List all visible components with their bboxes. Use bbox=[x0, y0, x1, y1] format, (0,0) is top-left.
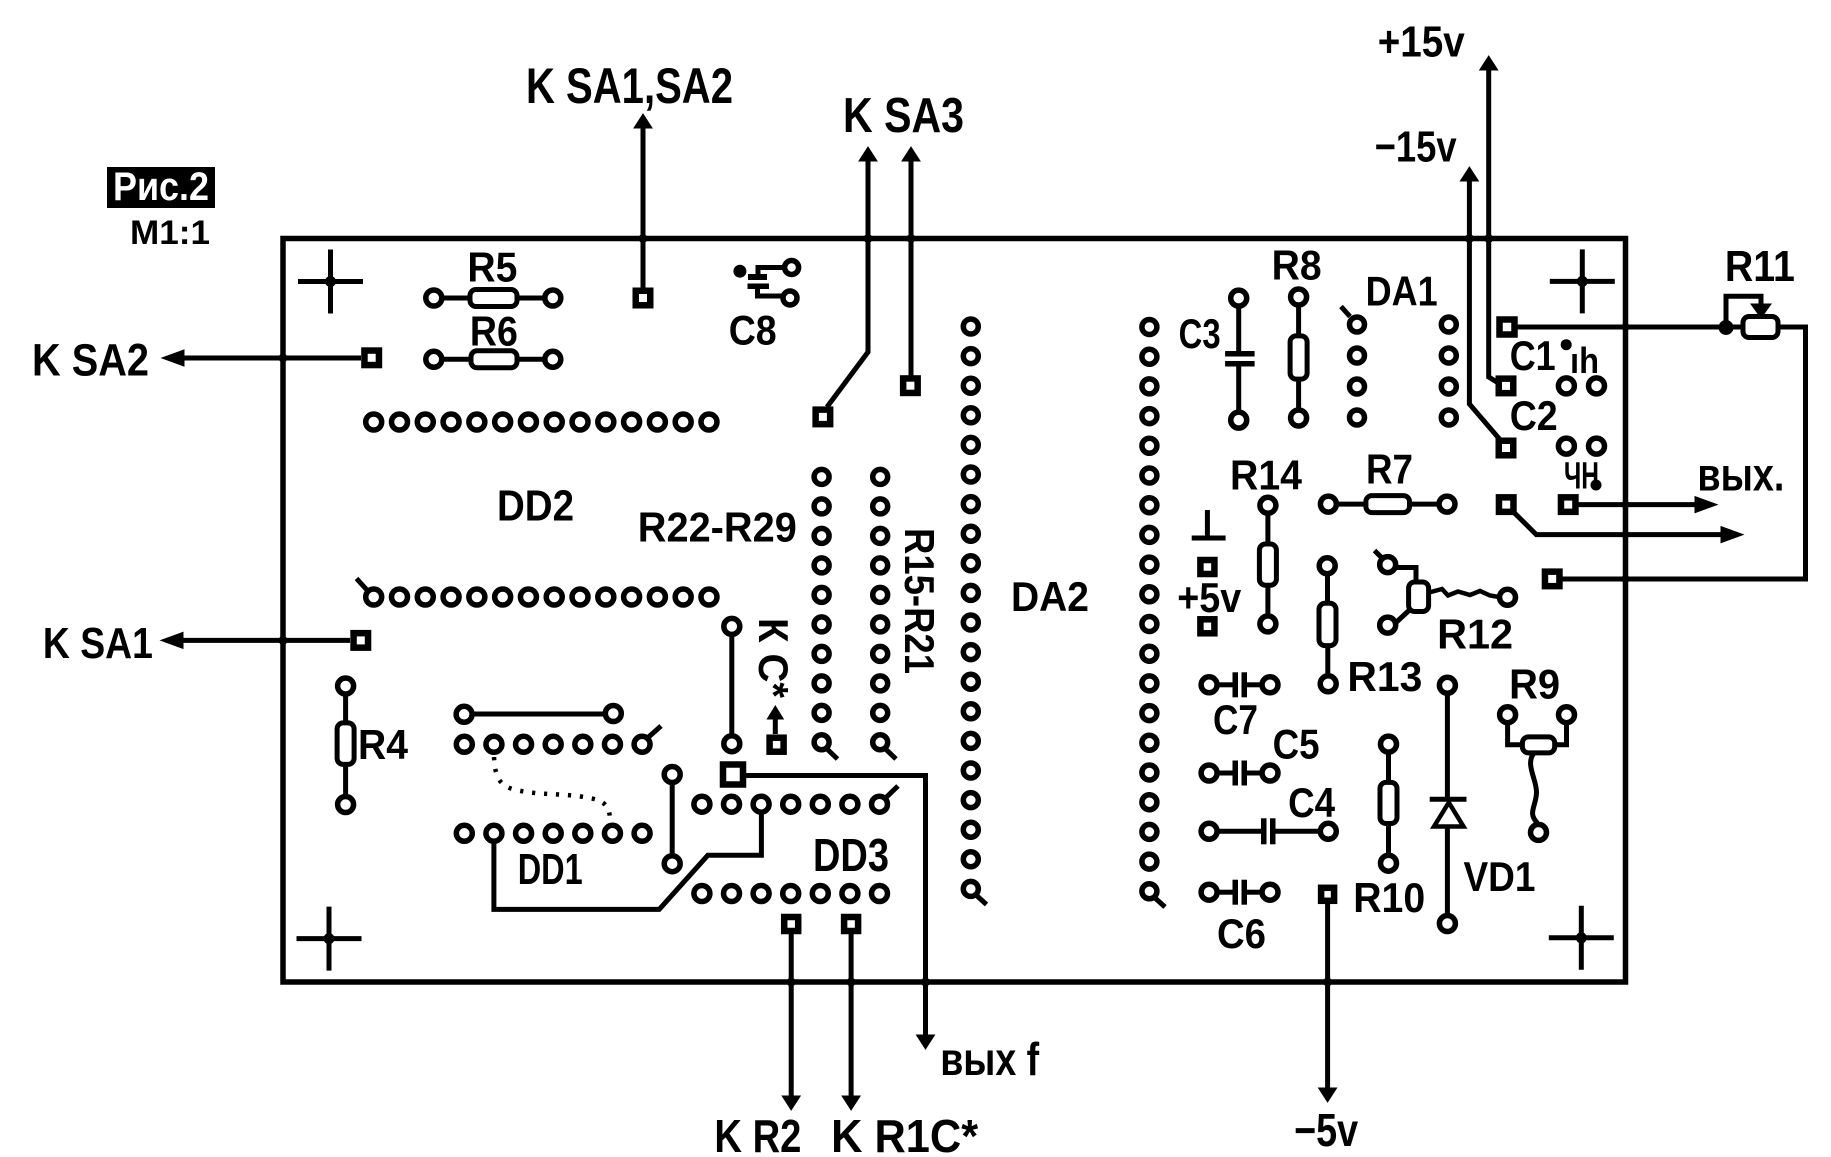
svg-text:K SA2: K SA2 bbox=[32, 335, 149, 386]
resistor network R15-R21 pads column bbox=[873, 469, 896, 759]
junction top edge x1469 bbox=[1465, 234, 1474, 243]
resistor R7 bbox=[1320, 446, 1455, 513]
label K R2 bbox=[714, 1110, 801, 1157]
capacitor C2 bbox=[1510, 392, 1605, 497]
junction bottom edge x791 bbox=[787, 978, 796, 987]
junction right edge y579 bbox=[1622, 575, 1630, 583]
dotted trace DD1 bbox=[494, 757, 610, 821]
svg-text:VD1: VD1 bbox=[1464, 853, 1536, 900]
svg-text:C6: C6 bbox=[1217, 910, 1266, 957]
wire +15v arrow bbox=[1480, 56, 1498, 383]
svg-text:DD1: DD1 bbox=[518, 845, 583, 894]
jumper K C* pads bbox=[724, 618, 740, 751]
node K SA2 pad bbox=[364, 351, 379, 366]
IC DD1 pad row A (pin tick) bbox=[456, 726, 661, 752]
svg-text:R5: R5 bbox=[467, 244, 517, 291]
IC DD3 bottom row bbox=[694, 886, 888, 902]
svg-text:C1: C1 bbox=[1510, 332, 1556, 379]
capacitor C3 bbox=[1179, 290, 1255, 428]
node pad G (R11 return) bbox=[1545, 572, 1560, 587]
node вых pad E bbox=[1499, 497, 1514, 512]
node K SA1 pad bbox=[354, 633, 369, 648]
svg-text:K R2: K R2 bbox=[714, 1110, 801, 1157]
svg-text:вых.: вых. bbox=[1697, 448, 1784, 500]
label K R1C* bbox=[831, 1110, 978, 1157]
resistor R9 bbox=[1500, 661, 1575, 841]
IC DA2 right pad column bbox=[1142, 320, 1165, 908]
label K SA1 bbox=[43, 619, 153, 668]
label +5v bbox=[1177, 574, 1242, 621]
registration mark bottom-right bbox=[1549, 906, 1614, 970]
svg-text:R7: R7 bbox=[1366, 446, 1413, 493]
node K R2 pad bbox=[784, 917, 798, 931]
svg-text:C8: C8 bbox=[729, 307, 777, 354]
resistor R14 bbox=[1230, 452, 1303, 632]
title Рис.2 (inverted label) bbox=[107, 165, 215, 209]
jumper wire above DD1 bbox=[456, 706, 621, 723]
resistor R13 bbox=[1319, 558, 1422, 700]
svg-text:Рис.2: Рис.2 bbox=[113, 165, 209, 209]
wire -15v arrow bbox=[1460, 167, 1502, 442]
wire вых arrow 2 bbox=[1515, 513, 1744, 543]
svg-text:−15v: −15v bbox=[1375, 122, 1457, 171]
trace DD1 pin2 to DD3 pin3 bbox=[494, 812, 762, 909]
junction top edge x643 bbox=[639, 234, 648, 243]
diode VD1 bbox=[1430, 677, 1536, 931]
capacitor C1 bbox=[1510, 332, 1605, 394]
svg-text:R12: R12 bbox=[1437, 611, 1513, 658]
wire K C* arrow up bbox=[767, 706, 783, 734]
IC DA1 right pad column bbox=[1441, 317, 1456, 425]
trimmer R11 bbox=[1518, 242, 1806, 579]
label -5v bbox=[1294, 1104, 1358, 1156]
IC DD2 pad row 2 (pin 1 tick) bbox=[357, 579, 717, 606]
wire вых f arrow bbox=[917, 986, 935, 1049]
registration mark top-right bbox=[1550, 249, 1615, 313]
junction right edge y504 bbox=[1622, 501, 1630, 509]
svg-text:C4: C4 bbox=[1288, 779, 1336, 826]
registration mark bottom-left bbox=[297, 907, 362, 971]
capacitor C5 bbox=[1201, 721, 1320, 786]
wire K SA2 bbox=[162, 350, 361, 366]
svg-text:+15v: +15v bbox=[1378, 18, 1465, 67]
label R22-R29 bbox=[638, 504, 797, 551]
node K C* pad bbox=[770, 738, 784, 752]
capacitor C7 bbox=[1201, 672, 1278, 743]
IC DD3 top row (pin tick) bbox=[694, 786, 898, 812]
svg-text:ıh: ıh bbox=[1570, 340, 1599, 381]
svg-text:−5v: −5v bbox=[1294, 1104, 1358, 1156]
node R10/-5v pad bbox=[1321, 888, 1334, 901]
ground symbol bbox=[1192, 510, 1226, 538]
resistor R10 bbox=[1353, 736, 1425, 921]
svg-text:R10: R10 bbox=[1353, 874, 1425, 921]
resistor R4 bbox=[337, 678, 408, 813]
resistor R8 bbox=[1272, 242, 1322, 426]
wire K SA1,SA2 arrow bbox=[634, 114, 652, 289]
wire вых arrow 1 bbox=[1579, 497, 1718, 513]
node +15v pad bbox=[1499, 379, 1514, 394]
resistor R6 bbox=[426, 307, 561, 367]
label K SA1,SA2 bbox=[526, 58, 733, 114]
junction bottom edge x851 bbox=[847, 978, 856, 987]
svg-text:R4: R4 bbox=[358, 721, 409, 768]
svg-text:R6: R6 bbox=[470, 307, 518, 354]
label K SA3 bbox=[843, 89, 964, 143]
svg-text:К С*: К С* bbox=[750, 618, 797, 699]
svg-text:M1:1: M1:1 bbox=[130, 214, 210, 252]
junction top edge x1488 bbox=[1484, 234, 1493, 243]
capacitor C8 bbox=[729, 261, 799, 354]
label R15-R21 (rotated) bbox=[896, 528, 943, 674]
capacitor C6 bbox=[1201, 880, 1278, 957]
svg-text:C7: C7 bbox=[1213, 696, 1258, 743]
svg-text:K R1C*: K R1C* bbox=[831, 1110, 978, 1157]
node K SA3 pad right bbox=[903, 378, 918, 393]
trimmer R12 bbox=[1375, 551, 1516, 658]
node +5v pad lower bbox=[1200, 619, 1214, 633]
node K R1C* pad bbox=[844, 917, 858, 931]
svg-text:K SA3: K SA3 bbox=[843, 89, 964, 143]
board outline bbox=[283, 239, 1626, 983]
vertical jumper right of DD1 bbox=[664, 767, 680, 872]
svg-text:R14: R14 bbox=[1230, 452, 1303, 499]
IC DD1 label bbox=[518, 845, 583, 894]
svg-text:вых f: вых f bbox=[940, 1033, 1040, 1085]
node вых pad F bbox=[1561, 497, 1576, 512]
resistor network R22-R29 pads column bbox=[814, 469, 837, 759]
svg-text:DA1: DA1 bbox=[1366, 268, 1438, 315]
IC DD2 label bbox=[497, 481, 574, 530]
junction left edge y358 bbox=[279, 354, 288, 363]
IC DD2 pad row 1 bbox=[366, 414, 717, 430]
label K C* (rotated) bbox=[750, 618, 797, 699]
wire K SA3 right arrow bbox=[902, 147, 920, 376]
svg-text:K SA1,SA2: K SA1,SA2 bbox=[526, 58, 733, 114]
wire K SA1 bbox=[161, 632, 350, 648]
scale label M1:1 bbox=[130, 214, 210, 252]
svg-text:R13: R13 bbox=[1347, 653, 1422, 700]
svg-text:C2: C2 bbox=[1510, 392, 1558, 439]
label +15v bbox=[1378, 18, 1465, 67]
IC DA2 left pad column bbox=[963, 319, 986, 905]
svg-text:+5v: +5v bbox=[1177, 574, 1242, 621]
IC DD3 label bbox=[813, 829, 889, 881]
resistor R5 bbox=[426, 244, 561, 307]
junction right edge y327 bbox=[1622, 323, 1630, 331]
svg-text:R9: R9 bbox=[1509, 661, 1560, 708]
wire -5v arrow bbox=[1319, 904, 1337, 1103]
IC DA1 label bbox=[1366, 268, 1438, 315]
junction bottom edge x925 bbox=[921, 978, 930, 987]
node trace pad left of DD3 bbox=[723, 765, 743, 785]
node K SA1,SA2 pad bbox=[636, 291, 651, 306]
IC DD1 pad row B bbox=[456, 825, 650, 841]
svg-text:R15-R21: R15-R21 bbox=[896, 528, 943, 674]
node -15v pad bbox=[1499, 441, 1514, 456]
svg-text:C5: C5 bbox=[1273, 721, 1320, 768]
svg-text:R22-R29: R22-R29 bbox=[638, 504, 797, 551]
label вых f bbox=[940, 1033, 1040, 1085]
junction left edge y640 bbox=[279, 636, 288, 645]
node +5v pad upper bbox=[1200, 560, 1214, 574]
IC DA2 label bbox=[1011, 573, 1089, 620]
trace DD3 to output (вых f) bbox=[743, 776, 926, 987]
svg-text:DD3: DD3 bbox=[813, 829, 889, 881]
capacitor C4 bbox=[1201, 779, 1336, 844]
node pad A (to R11) bbox=[1500, 320, 1515, 335]
svg-text:C3: C3 bbox=[1179, 310, 1221, 357]
junction top edge x868 bbox=[864, 234, 873, 243]
svg-text:DD2: DD2 bbox=[497, 481, 574, 530]
wire K SA3 left arrow bbox=[827, 147, 877, 407]
IC DA1 left pad column (pin 1 tick) bbox=[1341, 307, 1365, 426]
wire K R2 arrow bbox=[782, 934, 800, 1110]
label -15v bbox=[1375, 122, 1457, 171]
junction bottom edge x1327 bbox=[1323, 978, 1332, 987]
node K SA3 pad left bbox=[816, 410, 831, 425]
label вых. bbox=[1697, 448, 1784, 500]
junction top edge x911 bbox=[907, 234, 916, 243]
svg-text:DA2: DA2 bbox=[1011, 573, 1089, 620]
junction right edge y534 bbox=[1622, 531, 1630, 539]
svg-text:R8: R8 bbox=[1272, 242, 1322, 289]
wire K R1C* arrow bbox=[842, 934, 860, 1110]
registration mark top-left bbox=[298, 250, 363, 314]
svg-text:R11: R11 bbox=[1725, 242, 1795, 291]
label K SA2 bbox=[32, 335, 149, 386]
svg-text:K SA1: K SA1 bbox=[43, 619, 153, 668]
svg-text:ЧН: ЧН bbox=[1564, 456, 1599, 498]
